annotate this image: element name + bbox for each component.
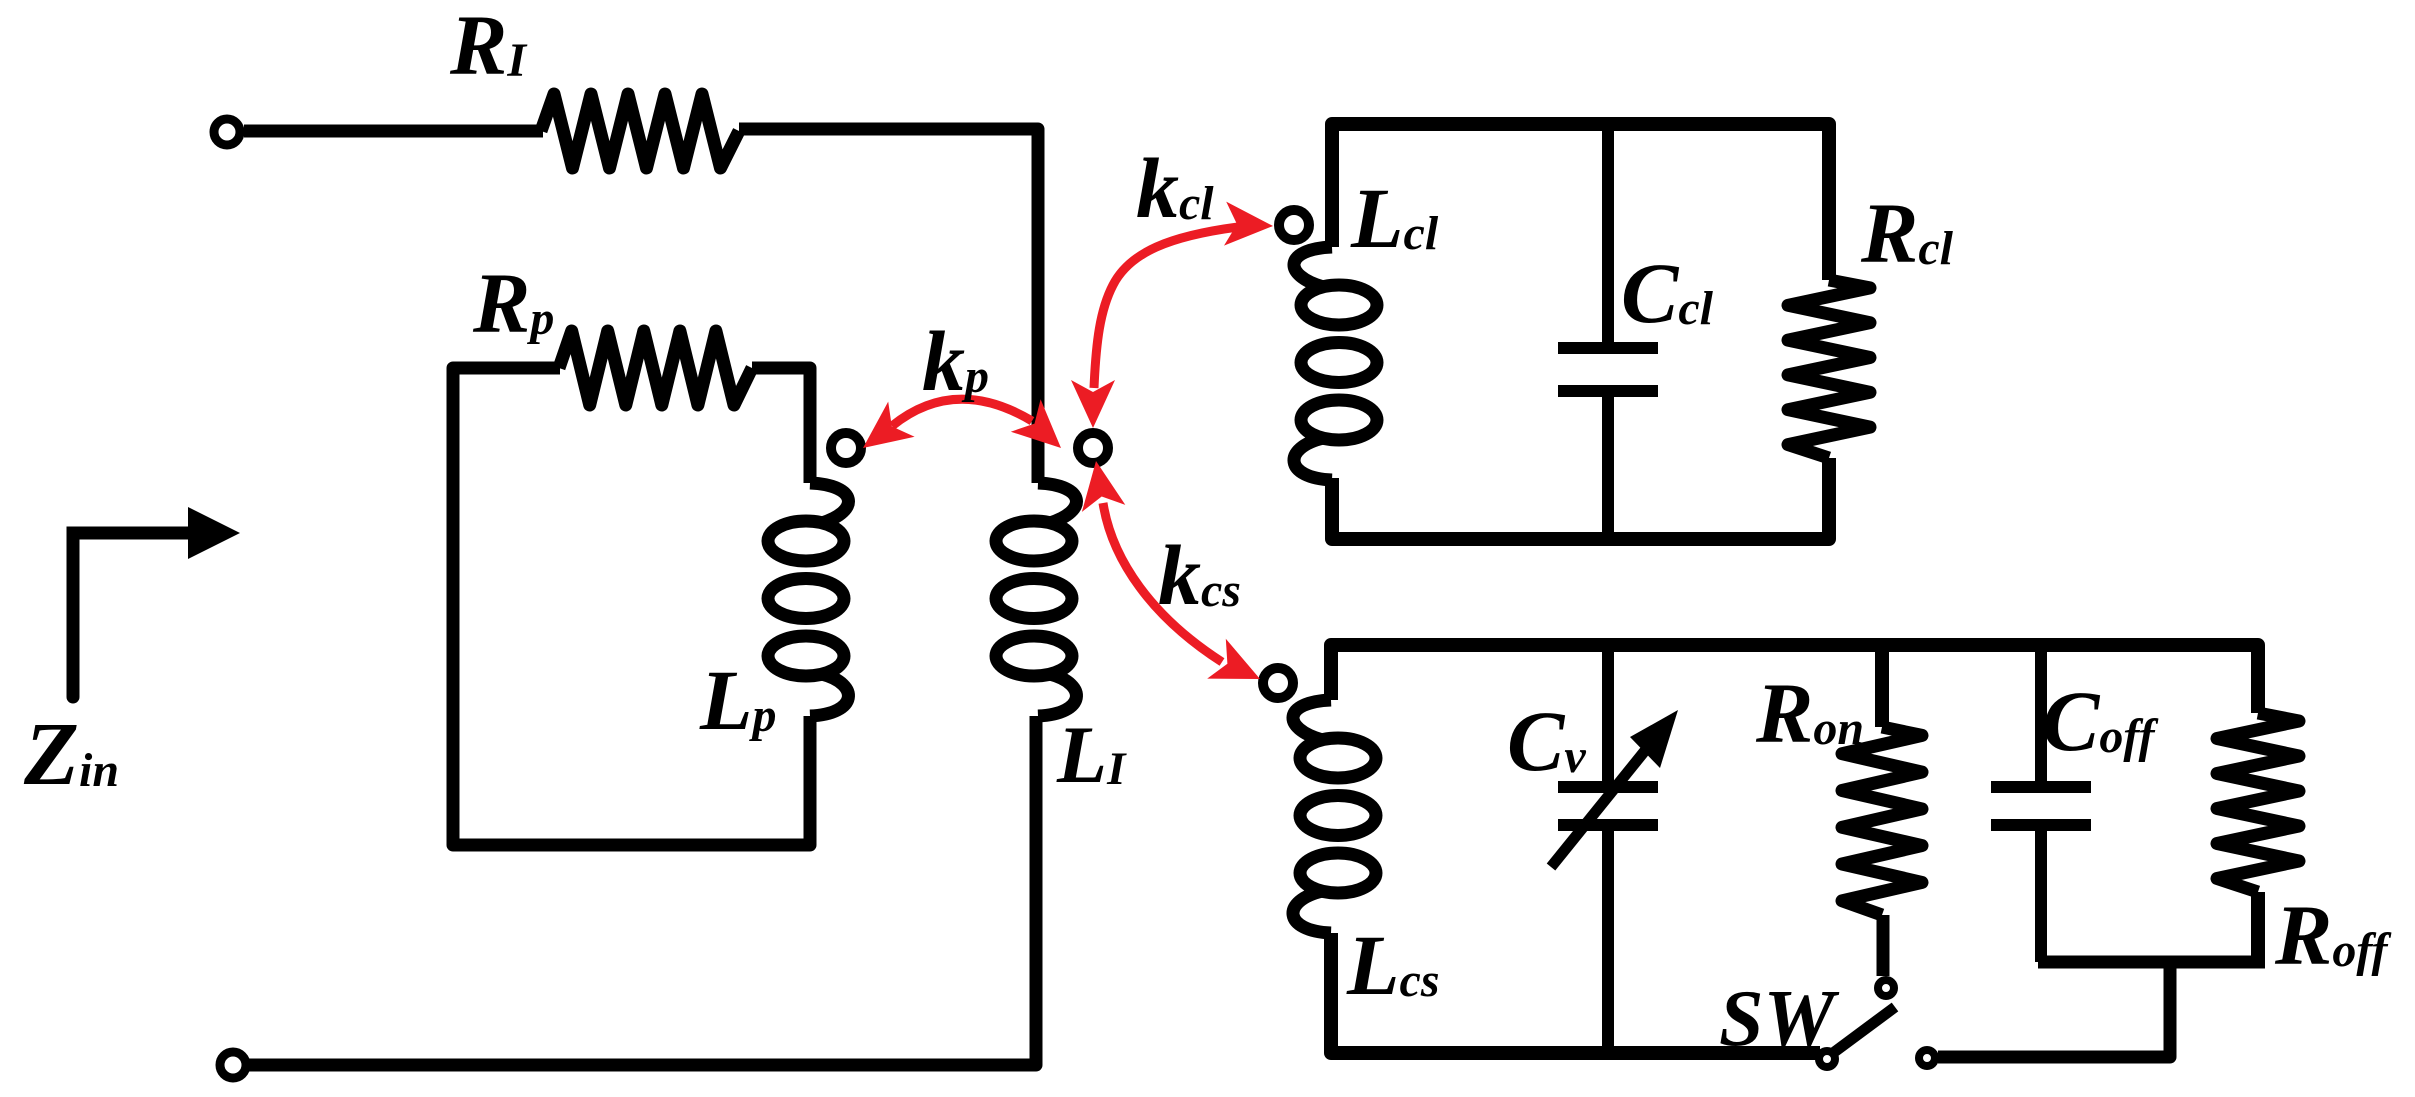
svg-text:kcl: kcl: [1136, 140, 1214, 236]
svg-text:Rp: Rp: [472, 255, 554, 351]
svg-text:Ccl: Ccl: [1621, 245, 1714, 341]
svg-text:Cv: Cv: [1507, 693, 1586, 789]
svg-text:Coff: Coff: [2042, 673, 2158, 769]
svg-text:kp: kp: [922, 313, 989, 409]
svg-text:Zin: Zin: [23, 705, 119, 804]
svg-text:Lcl: Lcl: [1350, 170, 1439, 266]
svg-text:LI: LI: [1056, 709, 1127, 800]
svg-text:Lcs: Lcs: [1346, 917, 1440, 1013]
svg-text:kcs: kcs: [1158, 527, 1241, 623]
svg-text:Rcl: Rcl: [1860, 185, 1954, 281]
svg-text:Ron: Ron: [1755, 665, 1864, 761]
svg-text:Roff: Roff: [2274, 887, 2391, 983]
svg-text:RI: RI: [449, 0, 528, 93]
svg-text:SW: SW: [1719, 975, 1839, 1063]
